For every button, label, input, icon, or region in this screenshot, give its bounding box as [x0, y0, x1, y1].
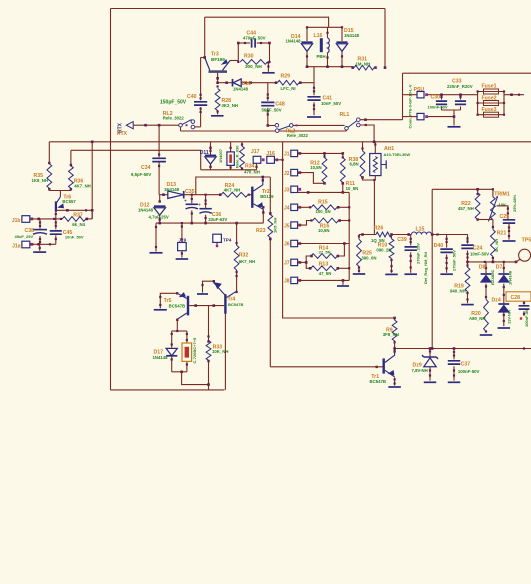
resistor R16 — [298, 221, 313, 226]
svg-text:R26: R26 — [374, 225, 384, 231]
svg-text:BD139: BD139 — [260, 194, 274, 199]
inductor L16 — [327, 27, 329, 38]
svg-text:3F8_NH: 3F8_NH — [383, 332, 399, 337]
wire right rail x349.2 — [348, 192, 350, 280]
svg-text:RTX: RTX — [117, 131, 128, 137]
connector J1a — [22, 241, 30, 248]
svg-text:RL1: RL1 — [340, 112, 350, 118]
svg-text:J6: J6 — [284, 242, 290, 248]
svg-text:R34: R34 — [245, 163, 255, 169]
resistor R30 — [237, 43, 239, 62]
wire node y194.7 — [159, 194, 168, 196]
svg-text:33uF-63V: 33uF-63V — [208, 217, 227, 222]
svg-text:Fuse2: Fuse2 — [482, 96, 497, 102]
svg-text:3K2_NH: 3K2_NH — [222, 103, 238, 108]
ground under rail — [150, 252, 163, 254]
wire x204.7 Tr3 collector riser — [204, 17, 206, 57]
svg-text:C37: C37 — [461, 361, 471, 367]
svg-text:4K7_NH: 4K7_NH — [224, 188, 240, 193]
svg-text:C25: C25 — [500, 214, 510, 220]
wire Tr4 bottom drop — [224, 314, 226, 390]
resistor R19 — [467, 262, 469, 267]
svg-text:1N4148: 1N4148 — [138, 207, 154, 212]
svg-text:C34: C34 — [141, 165, 151, 171]
capacitor C30 — [441, 95, 443, 100]
resistor R9 — [394, 318, 396, 320]
svg-text:BC547B: BC547B — [169, 303, 185, 308]
svg-text:A80_NH: A80_NH — [469, 316, 485, 321]
wire J8 rail — [298, 279, 350, 281]
ground PSU — [448, 126, 461, 128]
wire J2 to R12 bottom — [298, 173, 325, 184]
svg-text:R30: R30 — [244, 54, 254, 60]
svg-text:C-720BC+7+5: C-720BC+7+5 — [192, 337, 197, 364]
diode D16 — [218, 82, 233, 84]
svg-text:470pF_50V: 470pF_50V — [243, 36, 266, 41]
svg-text:D40: D40 — [434, 243, 444, 249]
svg-text:J1b: J1b — [12, 218, 21, 224]
resistor R32 — [236, 223, 238, 245]
resistor R23 — [269, 177, 271, 213]
resistor R34 — [241, 142, 243, 146]
ground R20 — [480, 334, 493, 336]
svg-text:940_NH: 940_NH — [450, 289, 466, 294]
svg-text:56pF_50V: 56pF_50V — [262, 108, 282, 113]
svg-text:6K7_NH: 6K7_NH — [239, 259, 255, 264]
capacitor C45 — [55, 219, 57, 230]
capacitor C36 — [205, 195, 207, 208]
svg-text:R32: R32 — [239, 252, 249, 258]
wire Tr1 emitter ground — [394, 378, 396, 386]
svg-text:1M_NH: 1M_NH — [356, 61, 371, 66]
diode D12 — [159, 195, 161, 202]
connector J5 — [291, 222, 298, 228]
wire RTX to RL2 — [133, 124, 178, 126]
svg-text:C30: C30 — [431, 95, 441, 101]
capacitor C48 — [267, 83, 269, 101]
capacitor C35 — [191, 195, 193, 204]
connector J8 — [291, 277, 298, 283]
wire ground stem J8 — [342, 280, 344, 284]
connector J1b — [22, 216, 30, 223]
svg-text:R23: R23 — [256, 228, 266, 234]
svg-text:J5: J5 — [284, 223, 290, 229]
svg-text:5K_NH: 5K_NH — [494, 239, 499, 252]
ground J19 — [176, 258, 189, 260]
connector J17 — [253, 156, 261, 163]
wire block drop to y384.6 — [182, 372, 209, 385]
wire J17 drop — [256, 163, 258, 170]
ground R19 — [461, 304, 474, 306]
svg-text:Fuse3: Fuse3 — [482, 107, 497, 113]
svg-text:Dz4: Dz4 — [492, 298, 501, 304]
wire y348.5 long rail — [395, 348, 531, 350]
diode D17 — [171, 331, 173, 348]
wire node y234.5 — [359, 234, 376, 236]
wire RL2A common drop — [180, 127, 182, 131]
capacitor C24 — [467, 235, 469, 244]
wire rail y189.3 — [431, 189, 433, 348]
relay RL2 pole B — [275, 124, 279, 128]
svg-text:10K_NH: 10K_NH — [212, 349, 228, 354]
wire rail y150.3 — [71, 150, 201, 170]
resistor R37 — [62, 217, 86, 222]
wire PSU top rail y73.2 — [403, 72, 531, 74]
wire frame right x385 to R31 — [384, 9, 386, 68]
svg-text:1N4148: 1N4148 — [507, 270, 512, 285]
net flag RTX — [126, 122, 133, 129]
wire bottom rail y390 — [111, 389, 225, 391]
wire Tr3 emitter to C44 loop — [230, 60, 238, 62]
wire RL1 upper throw to PSU rail — [360, 119, 403, 121]
svg-text:LFC_NI: LFC_NI — [281, 86, 296, 91]
resistor R20 — [484, 299, 489, 331]
wire rail y177 — [196, 177, 270, 195]
transistor Tr1 — [383, 358, 385, 373]
ground Dz9 — [424, 381, 437, 383]
wire ground stem rail — [155, 223, 157, 251]
svg-text:Fuse1: Fuse1 — [482, 84, 497, 90]
svg-text:L15: L15 — [416, 227, 425, 233]
svg-text:J8: J8 — [284, 279, 290, 285]
capacitor C28 — [523, 301, 525, 304]
svg-text:D7: D7 — [496, 265, 503, 271]
resistor R35 — [48, 142, 50, 164]
connector PSU pin 1 box — [403, 94, 418, 96]
ground left block — [33, 251, 46, 253]
svg-text:1K5_NH: 1K5_NH — [273, 218, 278, 233]
svg-text:47_5N: 47_5N — [319, 271, 332, 276]
ground C25 — [503, 240, 516, 242]
wire ground stem J1a — [39, 244, 41, 251]
wire fuse right rail — [503, 92, 505, 115]
diode D13 — [168, 191, 184, 198]
wire D17 block bottom rail — [172, 371, 187, 373]
svg-text:10nF_50V: 10nF_50V — [65, 235, 84, 240]
svg-text:100_5N: 100_5N — [316, 209, 331, 214]
resistor R33 — [206, 341, 211, 361]
wire Tr5 to D17 block — [176, 320, 178, 331]
svg-text:C40: C40 — [187, 94, 197, 100]
svg-text:270nF_25V: 270nF_25V — [416, 243, 421, 264]
svg-text:R21: R21 — [497, 230, 507, 236]
svg-text:D11: D11 — [200, 150, 209, 156]
ground Tr1 — [388, 386, 401, 388]
svg-text:TP5: TP5 — [522, 237, 531, 243]
ground Tr5 — [154, 309, 167, 311]
svg-text:100nF-50: 100nF-50 — [524, 309, 529, 327]
relay coil RL3 — [230, 142, 232, 152]
svg-text:1K8_NH: 1K8_NH — [32, 178, 48, 183]
connector J7 — [291, 259, 298, 265]
wire PSU left rail x402.5 — [402, 73, 404, 120]
wire J1b — [30, 218, 62, 220]
wire Tr4 emitter to ground — [203, 281, 214, 292]
svg-text:J3: J3 — [284, 188, 290, 194]
svg-text:10K: 10K — [498, 203, 507, 208]
wire y17 Tr3 collector to D14 block — [205, 17, 329, 27]
resistor R21 — [492, 220, 494, 230]
resistor R22 — [477, 189, 479, 192]
resistor R36 — [70, 150, 72, 166]
wire J6 rail — [298, 243, 350, 245]
svg-text:R15: R15 — [318, 199, 328, 205]
connector TP4 box — [213, 234, 222, 242]
diode D14 — [306, 27, 308, 41]
attenuator Att1 — [374, 142, 376, 154]
ground Tr4 — [197, 293, 208, 295]
ground Dz4 — [498, 327, 511, 329]
wire y261.9 — [468, 261, 517, 263]
svg-text:10,5N: 10,5N — [318, 228, 329, 233]
svg-text:Rele_3022: Rele_3022 — [163, 115, 185, 120]
capacitor C34 — [152, 158, 166, 161]
svg-text:J16: J16 — [266, 151, 275, 157]
wire RL1 lower throw drop — [360, 125, 374, 142]
svg-text:J17: J17 — [251, 149, 260, 155]
resistor R12 — [324, 153, 326, 157]
capacitor C33 — [460, 95, 462, 100]
svg-text:BC557: BC557 — [62, 199, 76, 204]
wire D14 block top rail — [307, 26, 342, 28]
svg-text:11V-NH: 11V-NH — [506, 310, 511, 324]
svg-text:BF199: BF199 — [211, 57, 225, 62]
svg-text:PBH: PBH — [317, 54, 326, 59]
wire x92.2 Tr6 collector riser — [91, 142, 93, 219]
svg-text:C39: C39 — [397, 237, 407, 243]
zener diode Dz9 — [429, 349, 431, 357]
svg-text:J1a: J1a — [12, 244, 21, 250]
svg-text:7,8V-NH: 7,8V-NH — [412, 368, 428, 373]
ground R10 — [385, 273, 398, 275]
wire J3 rail — [298, 191, 350, 193]
svg-text:100nF-50V: 100nF-50V — [458, 369, 480, 374]
svg-text:1N4148: 1N4148 — [286, 39, 302, 44]
svg-text:300_NH: 300_NH — [245, 64, 263, 69]
resistor R31 — [354, 65, 374, 70]
svg-text:Rele_3022: Rele_3022 — [287, 133, 309, 138]
wire main rail y141.8 — [49, 141, 531, 143]
svg-text:D8: D8 — [479, 265, 486, 271]
wire R22 TRIM1 bottom tie — [478, 219, 493, 221]
diode D15 — [341, 27, 343, 41]
wire ground stem x454 — [453, 110, 455, 126]
svg-text:090_2N: 090_2N — [376, 248, 391, 253]
wire Tr6 base drop — [55, 212, 57, 219]
svg-text:270nF_50V: 270nF_50V — [452, 250, 457, 271]
wire R38 Att1 bottom to R26 node — [363, 178, 375, 235]
connector J3 — [291, 186, 298, 192]
svg-text:R29: R29 — [281, 74, 291, 80]
capacitor C39 — [410, 235, 412, 246]
zener diode D7 — [503, 262, 505, 273]
svg-text:4K7_NH: 4K7_NH — [74, 183, 90, 188]
relay RL1 — [345, 127, 349, 131]
wire D17 block top rail — [172, 330, 187, 332]
svg-text:25%-68%: 25%-68% — [512, 194, 517, 212]
svg-text:J7: J7 — [284, 261, 290, 267]
wire Tr1 base — [270, 366, 382, 368]
connector J16 — [267, 156, 275, 163]
resistor R11 — [342, 153, 344, 157]
wire Tr5 collector to Tr4 base — [189, 305, 224, 307]
svg-text:C35: C35 — [185, 189, 195, 195]
svg-text:+: + — [184, 198, 187, 204]
diode D11 — [210, 142, 212, 155]
wire Tr2 emitter drop — [262, 210, 264, 223]
wire rail y223.1 — [156, 222, 263, 224]
svg-text:9,5pF-50V: 9,5pF-50V — [131, 172, 151, 177]
svg-text:C24: C24 — [473, 245, 483, 251]
wire J16 to J column rail — [274, 159, 282, 161]
wire Tr5 emitter to ground — [160, 293, 177, 308]
svg-text:27_5N: 27_5N — [319, 249, 331, 254]
trimmer TRIM1 — [492, 189, 494, 197]
wire PSU pin1 to fuses — [428, 94, 478, 96]
ground below R28 — [211, 115, 224, 117]
wire RTX to C34 riser x159.1 — [158, 125, 160, 157]
wire fuse output — [504, 94, 524, 96]
resistor R29 — [278, 80, 300, 85]
svg-text:J1: J1 — [284, 152, 290, 158]
svg-text:TP4: TP4 — [223, 237, 232, 242]
box C28 — [506, 292, 531, 301]
svg-text:470_NH: 470_NH — [244, 170, 260, 175]
ground R25 — [353, 273, 366, 275]
resistor R26 — [376, 232, 392, 237]
connector PSU pin 2 box — [403, 116, 418, 118]
wire R35 R36 tie — [49, 190, 71, 192]
wire J19 stem up — [181, 223, 183, 242]
svg-text:Conn_PT6-0-GP-10-L-V: Conn_PT6-0-GP-10-L-V — [408, 84, 413, 128]
svg-text:L16: L16 — [314, 33, 323, 39]
svg-text:BC547B: BC547B — [370, 379, 386, 384]
svg-text:1N4148: 1N4148 — [344, 33, 360, 38]
wire D14 block bottom rail — [307, 66, 353, 68]
transistor Tr4 — [224, 294, 226, 314]
svg-text:J4: J4 — [284, 206, 290, 212]
svg-text:1N4148: 1N4148 — [233, 86, 249, 91]
svg-text:10nF-50V: 10nF-50V — [470, 252, 489, 257]
transistor Tr3 — [209, 70, 228, 73]
resistor R24 — [221, 192, 248, 197]
resistor R25 — [358, 235, 360, 240]
relay RL2 pole A — [179, 123, 183, 127]
wire Tr6 emitter riser — [59, 191, 61, 197]
svg-text:6k_N4: 6k_N4 — [72, 222, 85, 227]
transistor Tr2 — [251, 187, 253, 208]
svg-text:BZX85C: BZX85C — [490, 270, 495, 285]
svg-text:R13: R13 — [319, 261, 329, 267]
svg-text:10nF_50V: 10nF_50V — [321, 101, 341, 106]
wire fuse left rail — [477, 92, 479, 115]
fuse Fuse3 — [478, 114, 504, 116]
svg-text:100nF-50V: 100nF-50V — [428, 104, 448, 109]
wire J1 to R12 R11 tops — [298, 152, 343, 154]
capacitor C38 — [39, 219, 41, 229]
fuse Fuse2 — [478, 102, 504, 104]
wire PSU pin2 to ground stem — [428, 116, 454, 118]
wire drop to bottom rail — [208, 385, 210, 390]
microphone jack — [519, 249, 531, 261]
capacitor C37 — [453, 349, 455, 360]
svg-text:4,7uF-25V: 4,7uF-25V — [149, 214, 169, 219]
wire R29 to C41 node — [300, 82, 314, 84]
svg-text:1N4148: 1N4148 — [164, 187, 180, 192]
ground J8 — [337, 285, 349, 287]
ground below C41 — [307, 116, 321, 118]
wire Tr6 collector to x92.2 — [57, 209, 92, 211]
ground D40 — [440, 273, 453, 275]
capacitor C44 — [238, 42, 250, 44]
connector J2 — [291, 169, 298, 175]
svg-text:457_NH: 457_NH — [458, 206, 474, 211]
svg-text:Att1: Att1 — [384, 146, 394, 152]
svg-text:Del_Reg_NM_Rit: Del_Reg_NM_Rit — [423, 251, 428, 284]
resistor R14 — [338, 244, 345, 257]
svg-text:45uF_25V: 45uF_25V — [15, 234, 34, 239]
resistor R15 — [298, 206, 312, 208]
svg-text:10,5N: 10,5N — [310, 165, 321, 170]
connector J4 — [291, 204, 298, 210]
svg-text:1N4148: 1N4148 — [153, 355, 169, 360]
wire J column rail x282.6 — [283, 142, 395, 318]
capacitor C25 — [503, 220, 515, 223]
ground below R30 — [267, 62, 269, 72]
transistor Tr5 — [187, 296, 189, 316]
connector J19 box — [178, 243, 187, 251]
svg-text:1N4007: 1N4007 — [218, 148, 223, 163]
resistor R28 — [215, 89, 220, 111]
fuse Fuse1 — [478, 91, 504, 93]
svg-text:J2: J2 — [284, 171, 290, 177]
capacitor C41 — [313, 67, 315, 96]
svg-text:10_5N: 10_5N — [346, 186, 359, 191]
svg-text:+: + — [198, 203, 201, 209]
wire J7 — [298, 261, 307, 263]
svg-text:TRIM1: TRIM1 — [494, 191, 510, 197]
wire rail y169.8 under D11 RL3 R34 — [201, 169, 257, 171]
crystal box component — [186, 331, 188, 343]
svg-text:150pF_50V: 150pF_50V — [160, 100, 187, 106]
wire frame top y8.5 — [111, 8, 386, 10]
zener diode Dz4 — [498, 303, 509, 305]
resistor R38 near Att1 — [362, 142, 364, 151]
zener diode D8 — [485, 262, 487, 273]
wire R33 riser — [208, 306, 210, 341]
connector J1 — [291, 150, 298, 156]
wire frame left x110.5 — [110, 9, 112, 390]
ground C37 — [448, 381, 461, 383]
resistor R10 — [391, 235, 393, 239]
svg-text:220nF_R20V: 220nF_R20V — [447, 84, 473, 89]
svg-text:R37: R37 — [73, 212, 83, 218]
svg-text:BC547B: BC547B — [228, 302, 243, 307]
wire C30 C33 bottom rail — [442, 109, 461, 111]
svg-text:390_0N: 390_0N — [361, 256, 376, 261]
capacitor C40 — [201, 57, 205, 59]
wire Tr3 base string — [217, 73, 219, 83]
svg-text:Rele_R_030: Rele_R_030 — [235, 145, 240, 168]
connector J6 — [291, 240, 298, 246]
capacitor D40 — [446, 235, 448, 248]
svg-text:C48: C48 — [275, 101, 285, 107]
svg-text:A10-T0EL30W: A10-T0EL30W — [384, 152, 411, 157]
wire relay bottom rail y131 — [181, 130, 347, 132]
ground C39 — [404, 273, 417, 275]
wire TRIM1 wiper to C25 — [497, 206, 508, 220]
wire J1a — [30, 243, 56, 245]
